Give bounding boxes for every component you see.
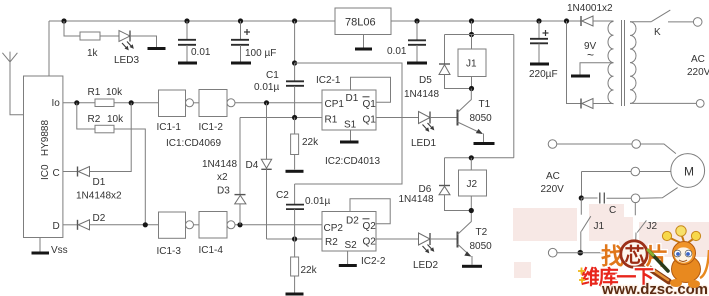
wire rail to J1 top <box>471 21 473 35</box>
node D3 bottom junction <box>237 222 242 227</box>
inverter IC1-3 <box>159 212 186 238</box>
svg-text:220µF: 220µF <box>529 69 558 80</box>
wire D pin <box>63 224 78 226</box>
svg-text:J1: J1 <box>466 59 477 70</box>
resistor 22k upper <box>294 118 296 135</box>
transformer 220V winding <box>630 22 636 104</box>
wire R2 branch <box>77 103 95 129</box>
node R1 out junction <box>129 100 134 105</box>
svg-text:100 µF: 100 µF <box>245 48 276 59</box>
LED3 <box>119 31 130 42</box>
capacitor C1 0.01u <box>294 63 296 81</box>
node rail cap1 <box>184 18 189 23</box>
wire rail right of regulator <box>391 20 581 22</box>
resistor R2 10k <box>95 125 114 133</box>
capacitor C2 0.01u <box>294 184 296 204</box>
inverter IC1-1 <box>159 90 186 117</box>
svg-text:1k: 1k <box>87 48 99 59</box>
diode D1 <box>77 167 79 177</box>
svg-text:1N4001x2: 1N4001x2 <box>567 3 613 14</box>
svg-text:R2: R2 <box>325 237 338 248</box>
regulator 78L06 <box>335 8 391 35</box>
wire LED3 to ground <box>130 36 157 47</box>
wire J1/D5 top bus <box>445 34 514 36</box>
wire LED2 to T2 base <box>430 238 458 240</box>
wire motor line 1 <box>548 140 557 149</box>
svg-text:IC2-1: IC2-1 <box>316 75 341 86</box>
svg-text:CP1: CP1 <box>325 99 345 110</box>
wire R2 down to lower chain <box>114 129 145 225</box>
relay J1 <box>458 49 486 77</box>
IC0 HY9888 <box>24 76 63 238</box>
svg-text:220V: 220V <box>541 184 565 195</box>
flip-flop IC2-2 <box>322 212 376 252</box>
wire 1k to LED3 <box>100 35 119 37</box>
transistor T2 8050 <box>457 232 459 248</box>
svg-text:R2: R2 <box>88 114 101 125</box>
svg-text:S2: S2 <box>345 240 358 251</box>
svg-text:D3: D3 <box>217 186 230 197</box>
svg-text:x2: x2 <box>217 172 228 183</box>
inverter IC1-2 <box>199 90 227 117</box>
svg-text:J2: J2 <box>467 179 478 190</box>
svg-text:R1: R1 <box>325 115 338 126</box>
svg-text:10k: 10k <box>107 114 124 125</box>
capacitor C (motor) <box>582 197 598 199</box>
wire D1-Q1bar feedback loop <box>351 77 391 102</box>
svg-text:D: D <box>53 221 60 232</box>
ground S1 <box>350 130 352 141</box>
svg-text:Q1: Q1 <box>363 99 377 110</box>
diode D6 <box>444 158 446 186</box>
svg-text:~: ~ <box>587 48 594 62</box>
svg-text:IC0 HY9888: IC0 HY9888 <box>40 120 51 180</box>
svg-text:Vss: Vss <box>51 245 68 256</box>
svg-text:10k: 10k <box>106 87 123 98</box>
transformer 9V primary winding <box>608 22 614 104</box>
node C1/22k junction <box>292 115 297 120</box>
svg-text:LED2: LED2 <box>413 260 438 271</box>
node rail J1 <box>469 18 474 23</box>
watermark magnifier handle <box>643 264 669 282</box>
svg-text:T1: T1 <box>479 99 491 110</box>
watermark mascot <box>648 226 709 288</box>
ground center tap <box>571 75 590 78</box>
svg-text:D4: D4 <box>246 160 259 171</box>
transformer core <box>621 20 623 106</box>
svg-text:IC2:CD4013: IC2:CD4013 <box>325 156 380 167</box>
node rail 220uF <box>536 18 541 23</box>
transistor T1 8050 <box>457 110 459 126</box>
wire R1 to IC1-1 <box>114 102 159 104</box>
svg-text:C: C <box>53 168 60 179</box>
svg-text:M: M <box>684 165 694 179</box>
wire Q2 to LED2 <box>376 238 419 240</box>
svg-text:1N4148x2: 1N4148x2 <box>76 191 122 202</box>
svg-text:J1: J1 <box>594 221 605 232</box>
wire gate1 to gate2 <box>194 102 200 104</box>
wire LED1 to T1 base <box>430 117 458 119</box>
node rail rectifier <box>564 18 569 23</box>
wire +V rail <box>49 20 335 22</box>
wire J2/D6 top bus <box>445 157 514 159</box>
wire 1k branch <box>64 21 80 36</box>
wire Q1 to LED1 <box>376 117 419 119</box>
svg-text:1N4148: 1N4148 <box>202 159 237 170</box>
watermark magnifier circle <box>621 241 648 268</box>
svg-text:C2: C2 <box>276 190 289 201</box>
svg-text:LED1: LED1 <box>411 138 436 149</box>
svg-text:IC1-3: IC1-3 <box>157 246 182 257</box>
wire rectifier left leg <box>567 21 582 104</box>
svg-text:22k: 22k <box>302 137 319 148</box>
node J1 bottom junction <box>469 86 474 91</box>
LED1 <box>419 112 431 124</box>
svg-text:Io: Io <box>52 98 61 109</box>
svg-text:1N4148: 1N4148 <box>399 194 434 205</box>
node D2/R2 junction <box>143 222 148 227</box>
svg-text:CP2: CP2 <box>324 223 344 234</box>
node J1 top junction <box>469 32 474 37</box>
wire R2 pin line <box>267 238 323 240</box>
svg-text:1N4148: 1N4148 <box>404 89 439 100</box>
node J2 top junction <box>469 155 474 160</box>
resistor 1k <box>80 32 100 40</box>
wire R1 line <box>240 117 322 119</box>
switch K <box>630 21 651 23</box>
wire rail down to POR line <box>294 21 296 63</box>
svg-text:J2: J2 <box>647 221 658 232</box>
svg-text:Q2: Q2 <box>363 237 377 248</box>
motor M <box>671 154 705 188</box>
node C branch junction <box>579 195 584 200</box>
wire C pin <box>63 171 78 173</box>
svg-text:LED3: LED3 <box>114 55 139 66</box>
wire down to C branch <box>581 172 583 199</box>
resistor 22k lower <box>294 239 296 257</box>
svg-text:220V: 220V <box>687 67 709 78</box>
wire center tap <box>580 63 614 75</box>
wire POR loop to C2 top <box>295 63 402 184</box>
node rail-1k junction <box>61 18 66 23</box>
capacitor 100uF <box>240 21 242 39</box>
watermark pink background blocks <box>513 204 709 278</box>
svg-text:D1: D1 <box>93 177 106 188</box>
wire 220V bottom <box>630 102 696 104</box>
node J2 bottom junction <box>469 208 474 213</box>
svg-text:8050: 8050 <box>470 113 493 124</box>
svg-text:IC1-2: IC1-2 <box>199 122 224 133</box>
antenna <box>2 53 17 62</box>
switch J1 <box>580 198 582 215</box>
inverter IC1-4 <box>199 212 227 239</box>
watermark sparkles <box>578 268 585 284</box>
capacitor 0.01 (left) <box>186 21 188 39</box>
wire IC0 supply <box>48 21 50 76</box>
diode D3 <box>239 118 241 196</box>
wire D2-Q2bar feedback loop <box>350 199 390 224</box>
node bottom wire junction <box>578 250 584 256</box>
svg-text:C: C <box>609 205 616 216</box>
svg-text:AC: AC <box>546 171 560 182</box>
diode D2 <box>77 220 79 230</box>
diode D5 <box>444 35 446 65</box>
relay J2 <box>459 170 487 196</box>
wire AC bottom line <box>548 248 557 257</box>
svg-text:D2: D2 <box>346 216 359 227</box>
node rail cap2 <box>238 18 243 23</box>
diode D4 <box>266 103 268 159</box>
wire down to J2 bus <box>513 35 515 158</box>
svg-text:8050: 8050 <box>470 241 493 252</box>
svg-text:22k: 22k <box>301 265 318 276</box>
svg-text:T2: T2 <box>476 227 488 238</box>
svg-text:D2: D2 <box>93 213 106 224</box>
wire IC1-2 out to CP1 <box>235 102 322 104</box>
node C2/22k junction <box>292 236 297 241</box>
svg-text:AC: AC <box>691 54 705 65</box>
svg-text:D1: D1 <box>346 93 359 104</box>
svg-text:0.01: 0.01 <box>387 46 407 57</box>
svg-text:片: 片 <box>646 243 669 269</box>
svg-text:C1: C1 <box>266 70 279 81</box>
svg-text:Q1: Q1 <box>363 115 377 126</box>
ground after LED3 <box>148 47 166 50</box>
ground Vss <box>39 238 41 252</box>
wire gate3 to gate4 <box>194 224 200 226</box>
LED2 <box>419 233 431 245</box>
svg-text:R1: R1 <box>88 87 101 98</box>
svg-text:0.01µ: 0.01µ <box>254 82 279 93</box>
svg-text:IC1:CD4069: IC1:CD4069 <box>166 138 221 149</box>
svg-text:0.01µ: 0.01µ <box>305 196 330 207</box>
diode 1N4001 top <box>580 16 582 26</box>
node rail C1 column <box>292 18 297 23</box>
resistor R1 10k <box>95 99 114 107</box>
capacitor 220uF <box>538 21 540 39</box>
svg-text:78L06: 78L06 <box>345 17 376 29</box>
ground S2 <box>347 251 349 264</box>
svg-text:D5: D5 <box>419 75 432 86</box>
wire motor line 2 <box>582 171 632 173</box>
node rail cap3 <box>414 18 419 23</box>
node Io junction <box>74 100 79 105</box>
wire Io pin <box>63 102 95 104</box>
capacitor 0.01 (right of 78L06) <box>416 21 418 40</box>
svg-text:0.01: 0.01 <box>191 47 211 58</box>
svg-text:IC1-1: IC1-1 <box>157 122 182 133</box>
wire IC1-4 out to CP2 <box>235 224 322 226</box>
svg-text:S1: S1 <box>344 120 357 131</box>
diode 1N4001 bottom <box>580 99 582 109</box>
svg-text:Q2: Q2 <box>363 221 377 232</box>
node D4 top junction <box>264 100 269 105</box>
node POR corner <box>292 60 297 65</box>
svg-text:IC1-4: IC1-4 <box>199 245 224 256</box>
svg-text:IC2-2: IC2-2 <box>361 256 386 267</box>
switch J2 (motor) <box>634 203 636 216</box>
svg-text:K: K <box>654 27 661 38</box>
